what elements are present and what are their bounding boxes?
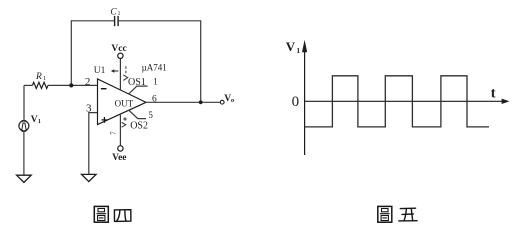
- svg-text:Vcc: Vcc: [111, 44, 126, 54]
- svg-text:1: 1: [296, 46, 300, 55]
- OS2 pin chevron: [122, 122, 126, 127]
- svg-text:1: 1: [153, 77, 158, 87]
- glyph 五: [399, 208, 417, 221]
- caption 圖四 (Figure 4) drawn glyphs: [94, 206, 417, 222]
- OS1 pin chevron: [123, 75, 127, 81]
- Vee terminal circle: [118, 146, 123, 151]
- svg-text:7: 7: [109, 131, 117, 135]
- svg-text:3: 3: [86, 102, 92, 114]
- wire: Vcc supply pin: [119, 59, 121, 91]
- wire: Vee supply pin: [119, 114, 121, 146]
- capacitor C1: [115, 16, 119, 26]
- wire: pin 3 stub to ground: [89, 113, 98, 175]
- wire: OS2 stub: [129, 110, 146, 119]
- svg-text:V: V: [286, 39, 296, 54]
- OS2 pin tiny plus: [123, 117, 127, 121]
- waveform V1 square wave: [305, 76, 489, 127]
- op-amp U1 triangle: [98, 79, 147, 125]
- x-axis arrowhead: [502, 99, 510, 104]
- wire: top feedback right segment: [118, 21, 201, 103]
- svg-text:2: 2: [85, 76, 91, 88]
- pin 7 marker arrow: [111, 69, 119, 73]
- svg-text:6: 6: [152, 95, 157, 105]
- ground (right, pin 3): [82, 174, 97, 181]
- wire: source to ground: [23, 131, 25, 175]
- svg-text:R: R: [35, 72, 42, 82]
- resistor R1: [32, 82, 48, 88]
- Vcc terminal circle: [118, 53, 123, 58]
- svg-text:C: C: [110, 8, 117, 18]
- wire: input node to pin 2: [24, 84, 32, 86]
- ground (left, under V1): [17, 175, 32, 182]
- glyph 四: [114, 210, 130, 222]
- svg-text:o: o: [231, 97, 234, 104]
- wire: top feedback left segment: [71, 21, 114, 86]
- wire: OS1 stub: [129, 86, 148, 94]
- svg-text:Vee: Vee: [112, 153, 126, 163]
- svg-text:U1: U1: [94, 66, 106, 76]
- junction node at inverting input: [69, 83, 73, 87]
- glyph 圖 (second): [378, 206, 392, 222]
- junction node at output: [199, 100, 203, 104]
- op-amp non-inverting input plus sign: [102, 117, 108, 123]
- svg-text:V: V: [31, 115, 38, 125]
- wire: resistor to op-amp pin 2: [48, 84, 98, 86]
- x-axis: [305, 100, 503, 102]
- svg-text:OUT: OUT: [115, 98, 134, 108]
- y-axis arrowhead: [302, 40, 307, 53]
- op-amp inverting input minus sign: [101, 88, 107, 90]
- Vo terminal circle: [220, 100, 224, 104]
- source V1: [19, 121, 29, 132]
- svg-text:5: 5: [148, 110, 153, 120]
- svg-text:0: 0: [292, 94, 300, 110]
- svg-text:1: 1: [118, 11, 121, 17]
- svg-text:t: t: [491, 85, 496, 101]
- glyph 圖 (first): [94, 206, 108, 222]
- svg-text:OS1: OS1: [128, 77, 146, 88]
- pin 7 dashed tick: [125, 66, 127, 74]
- svg-text:µA741: µA741: [142, 62, 167, 72]
- svg-text:OS2: OS2: [130, 120, 148, 131]
- svg-text:1: 1: [38, 119, 41, 125]
- wire: input column down to source V1: [23, 85, 25, 121]
- waveform figure: y-axis: [302, 40, 509, 155]
- wire: output pin 6 to Vo: [146, 101, 220, 103]
- svg-text:1: 1: [43, 76, 46, 82]
